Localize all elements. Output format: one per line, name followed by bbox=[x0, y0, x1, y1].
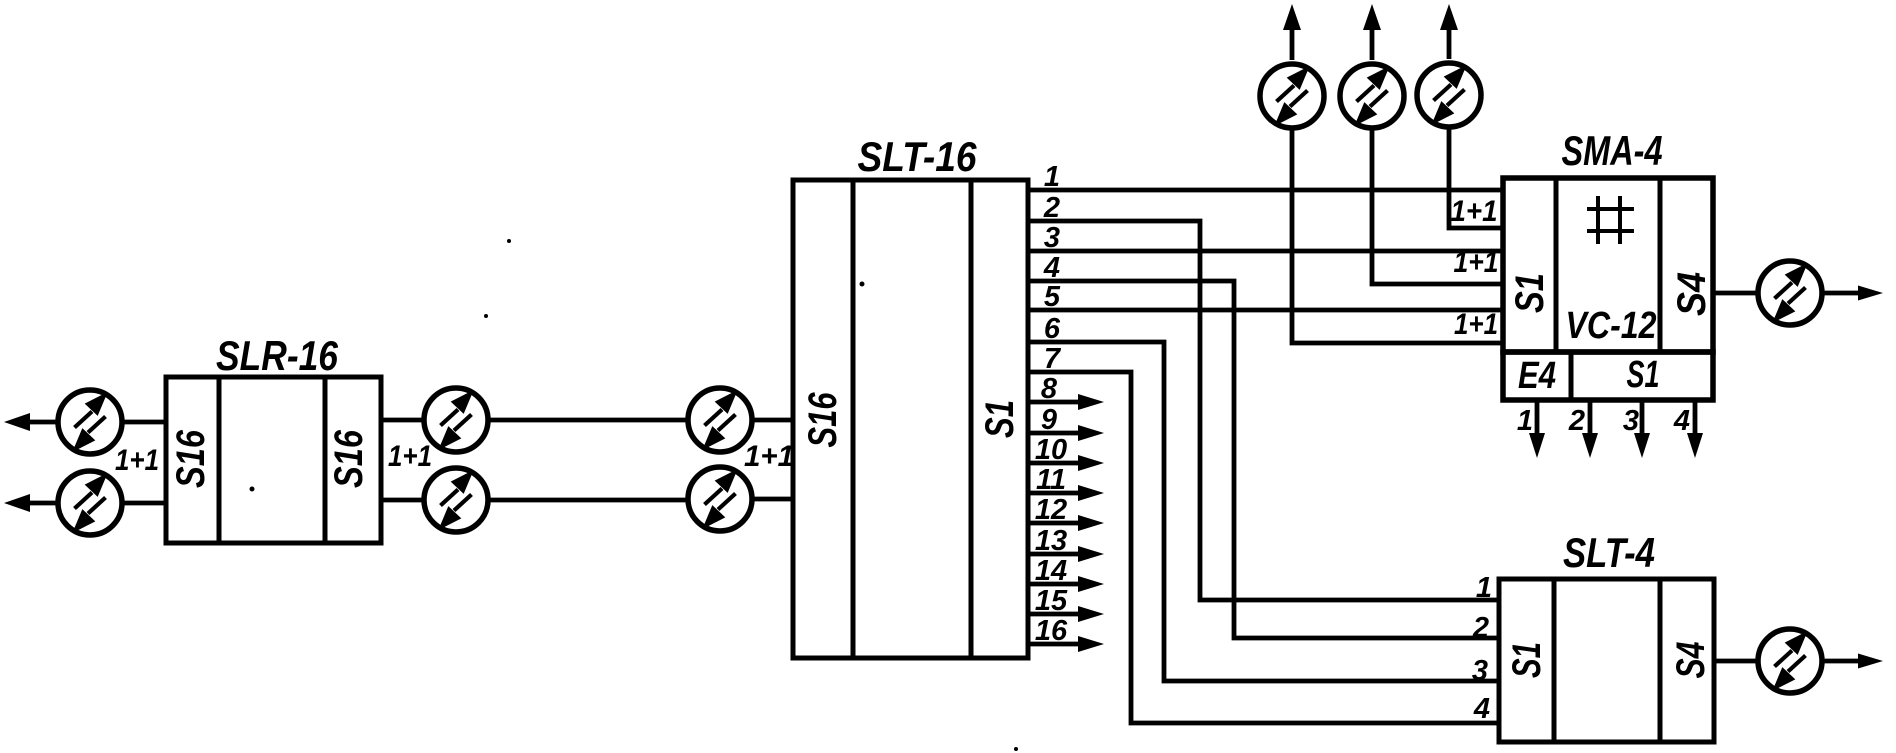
wire 1: SLT-16 to SMA-4 pair1 top bbox=[1028, 188, 1502, 193]
svg-text:4: 4 bbox=[1043, 252, 1060, 284]
scan speck upper middle bbox=[507, 239, 511, 243]
optical transceiver circle left top bbox=[58, 390, 122, 454]
output arrow of SMA-4 bbox=[1823, 291, 1860, 296]
svg-text:4: 4 bbox=[1473, 693, 1490, 725]
svg-text:VC-12: VC-12 bbox=[1566, 305, 1657, 347]
SMA-4 lower row divider bbox=[1569, 352, 1574, 400]
svg-text:S1: S1 bbox=[1508, 273, 1552, 313]
svg-text:1+1: 1+1 bbox=[744, 440, 794, 473]
optical transceiver circle mid-right bottom bbox=[688, 467, 752, 531]
svg-text:3: 3 bbox=[1472, 655, 1488, 687]
down arrow 3 of SMA-4 bbox=[1640, 401, 1645, 437]
wire 2: SLT-16 to SLT-4 input 1 bbox=[1028, 221, 1499, 600]
wire: left output line top bbox=[14, 420, 57, 425]
svg-text:1+1: 1+1 bbox=[1454, 308, 1498, 341]
SLT-16 divider left bbox=[851, 180, 856, 658]
svg-text:1+1: 1+1 bbox=[388, 440, 432, 473]
svg-text:1+1: 1+1 bbox=[115, 444, 159, 477]
wire: top circle 1 down to SMA-4 pair3 bottom bbox=[1292, 130, 1502, 343]
wire: SLR-16 to mid circles top bbox=[381, 418, 423, 423]
block SLT-4 bbox=[1499, 579, 1714, 742]
svg-text:2: 2 bbox=[1472, 612, 1489, 644]
svg-text:2: 2 bbox=[1568, 405, 1585, 437]
wire 16 with arrow bbox=[1028, 642, 1080, 647]
wire 9 with arrow bbox=[1028, 431, 1080, 436]
svg-text:3: 3 bbox=[1623, 405, 1639, 437]
up arrow wire top 2 bbox=[1370, 16, 1375, 60]
wire 7: SLT-16 to SLT-4 input 4 bbox=[1028, 372, 1499, 723]
wire 12 with arrow bbox=[1028, 521, 1080, 526]
svg-text:10: 10 bbox=[1035, 434, 1067, 466]
svg-text:S1: S1 bbox=[1505, 642, 1549, 678]
block SLT-16 bbox=[793, 180, 1028, 658]
optical transceiver circle top 2 bbox=[1340, 64, 1404, 128]
wire: SLT-4 S4 to circle bbox=[1714, 659, 1757, 664]
SLR-16 divider right bbox=[323, 377, 328, 543]
svg-text:1+1: 1+1 bbox=[1454, 246, 1499, 279]
svg-text:SLR-16: SLR-16 bbox=[216, 332, 339, 379]
svg-text:1: 1 bbox=[1517, 405, 1533, 437]
svg-text:5: 5 bbox=[1044, 281, 1061, 313]
optical transceiver circle top 3 bbox=[1417, 63, 1481, 127]
svg-text:14: 14 bbox=[1035, 555, 1067, 587]
svg-text:4: 4 bbox=[1673, 405, 1690, 437]
SLT-4 divider left bbox=[1552, 579, 1557, 742]
svg-text:2: 2 bbox=[1043, 192, 1060, 224]
wire: circles to SLR-16 bottom bbox=[124, 501, 166, 506]
optical transceiver circle mid-right top bbox=[688, 388, 752, 452]
svg-text:8: 8 bbox=[1041, 373, 1058, 405]
wire 11 with arrow bbox=[1028, 491, 1080, 496]
scan speck in SLR-16 bbox=[250, 487, 255, 492]
svg-text:E4: E4 bbox=[1518, 355, 1556, 397]
wire 4: SLT-16 to SLT-4 input 2 bbox=[1028, 281, 1499, 638]
wire 10 with arrow bbox=[1028, 461, 1080, 466]
up arrow wire top 3 bbox=[1447, 16, 1452, 59]
down arrow 2 of SMA-4 bbox=[1588, 401, 1593, 437]
wire 6: SLT-16 to SLT-4 input 3 bbox=[1028, 342, 1499, 681]
scan speck mid middle bbox=[484, 314, 488, 318]
svg-text:SLT-16: SLT-16 bbox=[858, 133, 978, 180]
optical transceiver circle right of SLT-4 bbox=[1758, 629, 1822, 693]
wire: top circle 3 down to SMA-4 pair1 bottom bbox=[1449, 129, 1502, 228]
svg-text:1: 1 bbox=[1476, 572, 1492, 604]
wire: SMA-4 S4 to circle bbox=[1713, 291, 1757, 296]
svg-text:SMA-4: SMA-4 bbox=[1562, 127, 1663, 174]
svg-text:1: 1 bbox=[1044, 161, 1060, 193]
block SLR-16 bbox=[166, 377, 381, 543]
scan speck bottom middle bbox=[1014, 747, 1018, 751]
SLT-16 divider right bbox=[969, 180, 974, 658]
svg-text:9: 9 bbox=[1041, 404, 1057, 436]
arrowhead left bottom bbox=[4, 494, 30, 512]
svg-text:12: 12 bbox=[1035, 494, 1067, 526]
wire 3: SLT-16 to SMA-4 pair2 top bbox=[1028, 249, 1503, 254]
svg-text:13: 13 bbox=[1035, 525, 1067, 557]
wire: top circle 2 down to SMA-4 pair2 bottom bbox=[1372, 130, 1502, 284]
wire 14 with arrow bbox=[1028, 582, 1080, 587]
wire 5: SLT-16 to SMA-4 pair3 top bbox=[1028, 308, 1503, 313]
up arrow wire top 1 bbox=[1290, 16, 1295, 60]
optical transceiver circle top 1 bbox=[1260, 64, 1324, 128]
wire: SLR-16 to mid circles bottom bbox=[381, 498, 423, 503]
svg-text:7: 7 bbox=[1044, 343, 1062, 375]
svg-text:S16: S16 bbox=[327, 429, 371, 488]
SMA-4 lower row box bbox=[1503, 352, 1713, 400]
block SMA-4 bbox=[1503, 178, 1713, 352]
optical transceiver circle right of SMA-4 bbox=[1758, 261, 1822, 325]
wire 8 with arrow bbox=[1028, 400, 1080, 405]
svg-text:1+1: 1+1 bbox=[1451, 195, 1498, 228]
output arrow of SLT-4 bbox=[1824, 659, 1864, 664]
svg-text:S16: S16 bbox=[801, 392, 845, 448]
arrowhead left top bbox=[4, 413, 30, 431]
wire 15 with arrow bbox=[1028, 612, 1080, 617]
svg-text:6: 6 bbox=[1044, 313, 1061, 345]
wire: long span top bbox=[490, 418, 687, 423]
optical transceiver circle left bottom bbox=[58, 471, 122, 535]
svg-text:S1: S1 bbox=[1627, 354, 1660, 396]
svg-text:S4: S4 bbox=[1670, 272, 1714, 316]
wire: long span bottom bbox=[490, 498, 687, 503]
svg-text:S1: S1 bbox=[978, 400, 1022, 438]
svg-text:S16: S16 bbox=[169, 429, 213, 488]
svg-text:11: 11 bbox=[1036, 464, 1066, 496]
optical transceiver circle mid-left top bbox=[424, 388, 488, 452]
wire: left output line bottom bbox=[14, 501, 57, 506]
svg-text:15: 15 bbox=[1035, 585, 1068, 617]
wire: circles to SLT-16 top bbox=[754, 418, 794, 423]
wire: circles to SLR-16 top bbox=[124, 420, 166, 425]
wire: circles to SLT-16 bottom bbox=[754, 497, 794, 502]
svg-text:SLT-4: SLT-4 bbox=[1563, 529, 1655, 576]
SMA-4 divider right bbox=[1658, 178, 1663, 352]
svg-text:3: 3 bbox=[1044, 222, 1060, 254]
optical transceiver circle mid-left bottom bbox=[424, 468, 488, 532]
scan speck in SLT-16 bbox=[860, 282, 865, 287]
svg-text:16: 16 bbox=[1035, 615, 1068, 647]
down arrow 4 of SMA-4 bbox=[1693, 401, 1698, 437]
SLR-16 divider left bbox=[217, 377, 222, 543]
down arrow 1 of SMA-4 bbox=[1535, 401, 1540, 437]
wire 13 with arrow bbox=[1028, 552, 1080, 557]
SMA-4 divider left bbox=[1554, 178, 1559, 352]
cross-connect matrix symbol bbox=[1587, 196, 1634, 244]
SLT-4 divider right bbox=[1658, 579, 1663, 742]
svg-text:S4: S4 bbox=[1669, 642, 1713, 679]
